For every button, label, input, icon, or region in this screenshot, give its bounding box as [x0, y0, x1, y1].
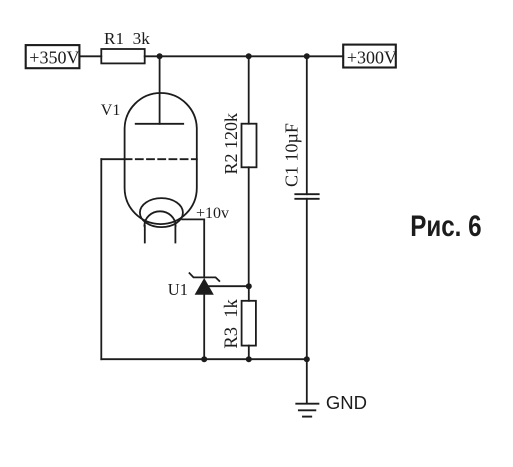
- wire zener anode down: [203, 294, 205, 359]
- junction node R2 top: [246, 53, 252, 59]
- wire R2 top: [248, 56, 250, 123]
- wire C1 bottom: [306, 199, 308, 359]
- svg-text:U1: U1: [168, 280, 188, 299]
- wire R2 bottom to junction: [248, 167, 250, 286]
- ground bar 3: [303, 416, 311, 418]
- junction node zener bottom: [201, 356, 207, 362]
- capacitor C1 plate top: [295, 193, 318, 195]
- svg-text:R2 120k: R2 120k: [221, 113, 241, 175]
- tube V1 heater leg left: [144, 226, 146, 243]
- svg-text:+10v: +10v: [196, 205, 229, 222]
- wire C1 top: [306, 56, 308, 194]
- svg-text:V1: V1: [101, 102, 121, 119]
- wire anode drop: [159, 56, 161, 124]
- wire R1 to +300V box: [145, 55, 344, 57]
- tube V1 envelope: [125, 93, 197, 224]
- wire +350V box to R1: [79, 55, 101, 57]
- svg-text:R1 3k: R1 3k: [104, 29, 150, 48]
- tube V1 anode plate: [136, 123, 184, 125]
- svg-text:+350V: +350V: [29, 48, 79, 68]
- wire ground stem: [306, 359, 308, 403]
- junction node C1 bottom: [304, 356, 310, 362]
- zener U1 cathode bar: [190, 273, 220, 281]
- tube V1 heater dome: [144, 211, 175, 226]
- junction node C1 top: [304, 53, 310, 59]
- tube V1 cathode circle: [140, 198, 183, 227]
- svg-text:GND: GND: [326, 392, 367, 413]
- wire bottom rail: [101, 358, 306, 360]
- junction node R1/anode: [157, 53, 163, 59]
- resistor R2: [242, 124, 257, 168]
- svg-text:R3 1k: R3 1k: [222, 299, 242, 349]
- wire grid lead: [101, 158, 124, 160]
- capacitor C1 plate bottom: [295, 198, 318, 200]
- node +350V supply box: [26, 45, 80, 68]
- ground bar 2: [299, 409, 315, 411]
- resistor R1: [101, 49, 144, 63]
- wire junction to R3: [248, 286, 250, 301]
- tube V1 heater leg right: [174, 226, 176, 243]
- resistor R3: [242, 301, 256, 346]
- svg-text:Рис. 6: Рис. 6: [410, 208, 481, 242]
- wire left feedback vertical: [100, 159, 102, 359]
- junction node R3 bottom: [246, 356, 252, 362]
- wire cathode to zener: [182, 219, 204, 277]
- svg-text:+300V: +300V: [347, 48, 397, 68]
- ground bar 1: [296, 403, 318, 405]
- wire zener to R3: [204, 285, 249, 287]
- node +300V supply box: [343, 45, 396, 68]
- wire R3 bottom: [248, 346, 250, 360]
- svg-text:C1 10µF: C1 10µF: [282, 123, 302, 187]
- junction node zener/R3: [246, 283, 252, 289]
- zener U1 triangle: [195, 278, 214, 295]
- tube V1 grid (dashed): [125, 158, 197, 160]
